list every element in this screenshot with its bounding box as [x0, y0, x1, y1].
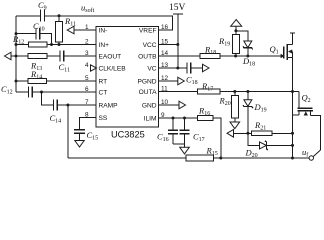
- wire: RT row: [16, 80, 28, 82]
- op-amp/IC U1 UC3825 box: [96, 27, 159, 128]
- svg-text:VCC: VCC: [143, 42, 157, 49]
- resistor R15: [186, 155, 214, 161]
- node: rail/Q1 source: [291, 157, 294, 160]
- wire: GND row: [159, 104, 179, 106]
- node: D20 right: [291, 144, 294, 147]
- node: C16 top: [172, 117, 175, 120]
- svg-text:D19: D19: [254, 102, 267, 114]
- capacitor C14: [53, 100, 55, 111]
- wire: left vertical rail: [15, 16, 17, 92]
- arrow: VC out: [203, 64, 210, 72]
- svg-text:4: 4: [85, 62, 89, 69]
- svg-text:13: 13: [161, 62, 169, 69]
- svg-text:C9: C9: [38, 0, 47, 12]
- transistor Q2: [298, 92, 300, 109]
- wire: C10 branch: [16, 33, 36, 35]
- node: R21 right: [291, 132, 294, 135]
- arrow: OUTA drive in: [227, 130, 234, 138]
- svg-text:GND: GND: [142, 102, 157, 109]
- arrow: gate drive arrowhead Q1: [281, 54, 285, 58]
- svg-text:16: 16: [161, 24, 169, 31]
- node: R11/IN+: [58, 43, 61, 46]
- transistor Q1: [283, 47, 285, 59]
- node: OUTA/Q1 source cross: [291, 90, 294, 93]
- svg-text:1: 1: [85, 24, 89, 31]
- resistor R17: [198, 89, 221, 94]
- svg-text:IN-: IN-: [99, 27, 108, 34]
- wire: IN- row arrow stub: [74, 29, 96, 31]
- resistor R13: [28, 54, 47, 59]
- node: rail/R16 drop: [219, 157, 222, 160]
- svg-text:D18: D18: [242, 56, 255, 68]
- capacitor C9: [40, 10, 42, 22]
- svg-text:IN+: IN+: [99, 42, 110, 49]
- node: rail/RT: [15, 80, 18, 83]
- wire: CT row: [16, 91, 29, 93]
- svg-text:VREF: VREF: [139, 27, 157, 34]
- svg-text:CT: CT: [99, 89, 108, 96]
- svg-text:C15: C15: [87, 130, 99, 142]
- wire: OUTB row: [159, 55, 200, 57]
- node: rail/C10: [15, 32, 18, 35]
- svg-text:C16: C16: [157, 132, 169, 144]
- svg-text:9: 9: [161, 112, 165, 119]
- node: R19 top: [234, 29, 237, 32]
- diode D18 (zener): [236, 31, 248, 41]
- node: RAMP/ground branch: [66, 104, 69, 107]
- supply arrow below R20: [230, 122, 240, 129]
- node: R20 top: [233, 90, 236, 93]
- wire: 15V vertical: [177, 14, 179, 68]
- node: C17 top: [183, 117, 186, 120]
- node: D18/OUTB: [246, 55, 249, 58]
- wire: IN+ row: [16, 44, 29, 46]
- svg-text:C12: C12: [1, 84, 13, 96]
- svg-text:C11: C11: [59, 62, 70, 74]
- wire: ILIM row: [159, 117, 198, 119]
- node: rail/EAOUT: [15, 55, 18, 58]
- svg-text:R21: R21: [254, 120, 266, 132]
- resistor R16: [198, 116, 213, 121]
- svg-text:R16: R16: [198, 106, 210, 118]
- capacitor C11: [59, 51, 61, 62]
- node: D19 top: [246, 90, 249, 93]
- capacitor C18: [186, 63, 188, 74]
- wire: Q1 source vertical: [292, 52, 294, 159]
- node: VCC/15V: [176, 43, 179, 46]
- arrow: PGND out: [178, 77, 185, 85]
- capacitor C17: [184, 118, 186, 130]
- svg-text:Q1: Q1: [270, 44, 279, 56]
- svg-text:R11: R11: [64, 16, 76, 28]
- svg-text:C18: C18: [186, 75, 198, 87]
- svg-text:R18: R18: [204, 45, 216, 57]
- supply arrow above R19: [231, 20, 242, 27]
- svg-text:R17: R17: [201, 81, 213, 93]
- node: R19/OUTB: [234, 55, 237, 58]
- svg-text:6: 6: [85, 86, 89, 93]
- svg-text:7: 7: [85, 99, 89, 106]
- svg-text:R19: R19: [218, 36, 230, 48]
- svg-text:SS: SS: [99, 115, 108, 122]
- svg-text:RAMP: RAMP: [99, 102, 119, 109]
- resistor R18: [200, 54, 220, 59]
- clock wedge pin4: [91, 65, 97, 71]
- svg-text:EAOUT: EAOUT: [99, 53, 122, 60]
- svg-text:2: 2: [85, 39, 89, 46]
- node: R11 top junction: [58, 14, 61, 17]
- svg-text:usoft: usoft: [81, 3, 95, 15]
- wire: ground drop to bottom rail: [67, 105, 69, 158]
- arrow: GND out: [179, 101, 186, 109]
- label 15V supply: [173, 13, 183, 15]
- resistor R11: [58, 16, 60, 22]
- svg-text:10: 10: [161, 99, 169, 106]
- ground arrow below C16/C17: [180, 147, 190, 154]
- svg-text:R15: R15: [206, 146, 218, 158]
- resistor R19: [232, 35, 239, 54]
- wire: VCC row: [159, 44, 178, 46]
- svg-text:11: 11: [161, 86, 168, 93]
- wire: OUTA row: [159, 91, 198, 93]
- diode D19 (zener): [247, 92, 249, 100]
- svg-text:C14: C14: [50, 113, 62, 125]
- node: VC/15V: [176, 67, 179, 70]
- svg-text:Q2: Q2: [302, 93, 311, 105]
- wire: PGND row: [159, 80, 178, 82]
- node: R21 left: [246, 132, 249, 135]
- svg-text:12: 12: [161, 75, 169, 82]
- svg-text:14: 14: [161, 50, 169, 57]
- svg-text:15: 15: [161, 39, 169, 46]
- wire: C16/C17 join: [173, 143, 185, 145]
- svg-text:8: 8: [85, 112, 89, 119]
- capacitor C12: [28, 87, 30, 98]
- wire: RAMP row: [42, 92, 54, 105]
- wire: VC row: [159, 67, 187, 69]
- svg-text:RT: RT: [99, 78, 108, 85]
- wire: top u_soft/VREF net: [16, 15, 41, 17]
- node: C10/IN+: [50, 43, 53, 46]
- node: CT/C14 branch: [40, 91, 43, 94]
- svg-text:PGND: PGND: [137, 78, 156, 85]
- resistor R12: [29, 42, 48, 47]
- diode D20 (zener): [260, 142, 267, 149]
- svg-text:R12: R12: [12, 34, 24, 46]
- wire: D20 row: [248, 133, 260, 145]
- wire: EAOUT row: [11, 55, 28, 57]
- ground arrow below C15: [75, 141, 84, 148]
- svg-text:OUTB: OUTB: [138, 53, 157, 60]
- wire: bottom rail: [68, 157, 186, 159]
- resistor R20: [234, 92, 236, 96]
- svg-text:D20: D20: [245, 148, 258, 160]
- wire: R21 row: [234, 132, 252, 134]
- resistor R14: [28, 79, 46, 84]
- wire: SS row: [80, 118, 97, 130]
- resistor R21: [252, 131, 273, 136]
- svg-text:C10: C10: [33, 21, 45, 33]
- svg-text:OUTA: OUTA: [139, 89, 157, 96]
- svg-text:15V: 15V: [169, 3, 186, 13]
- svg-text:ILIM: ILIM: [144, 115, 157, 122]
- terminal u_f: [309, 156, 313, 160]
- capacitor C15: [74, 129, 85, 131]
- capacitor C16: [172, 118, 174, 130]
- capacitor C10: [35, 28, 37, 40]
- arrow: EAOUT signal: [5, 52, 12, 60]
- svg-text:VC: VC: [147, 65, 156, 72]
- svg-text:CLK/LEB: CLK/LEB: [99, 65, 127, 72]
- svg-text:uf: uf: [302, 147, 308, 159]
- arrow: IN- signal: [67, 26, 74, 34]
- svg-text:3: 3: [85, 50, 89, 57]
- svg-text:C17: C17: [193, 132, 205, 144]
- svg-text:R20: R20: [219, 96, 231, 108]
- svg-text:5: 5: [85, 75, 89, 82]
- svg-text:UC3825: UC3825: [111, 129, 145, 139]
- node: rail/R12: [15, 43, 18, 46]
